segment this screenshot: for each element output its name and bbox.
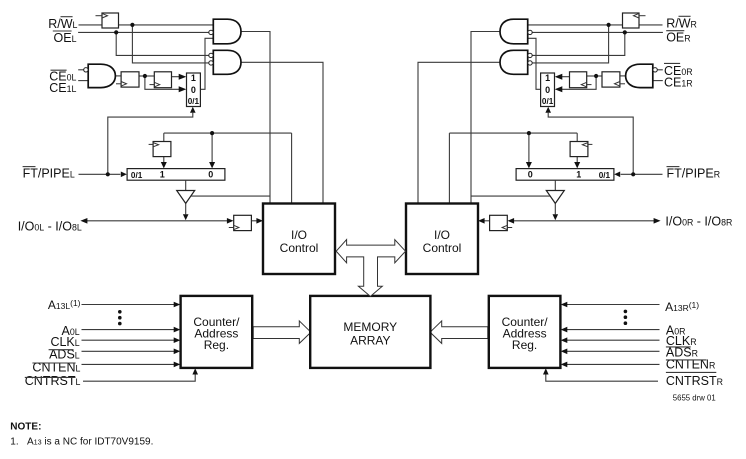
svg-text:1: 1 — [160, 170, 165, 180]
svg-text:I/O: I/O — [291, 228, 307, 242]
svg-text:0: 0 — [208, 170, 213, 180]
svg-text:I/O: I/O — [434, 228, 450, 242]
svg-text:Reg.: Reg. — [204, 338, 229, 352]
svg-text:Reg.: Reg. — [512, 338, 537, 352]
svg-text:0: 0 — [191, 85, 196, 95]
svg-text:5655 drw 01: 5655 drw 01 — [673, 394, 716, 403]
svg-text:0/1: 0/1 — [542, 97, 554, 106]
svg-text:FT/PIPEL: FT/PIPEL — [23, 167, 75, 181]
svg-text:FT/PIPER: FT/PIPER — [667, 167, 721, 181]
svg-text:0L: 0L — [67, 73, 77, 83]
svg-text:Control: Control — [280, 241, 319, 255]
svg-text:I/O0R - I/O8R: I/O0R - I/O8R — [665, 215, 732, 229]
svg-text:I/O0L - I/O8L: I/O0L - I/O8L — [18, 220, 82, 234]
svg-text:1L: 1L — [67, 84, 77, 94]
svg-text:NOTE:: NOTE: — [10, 422, 41, 433]
svg-text:1: 1 — [576, 170, 581, 180]
svg-text:CNTRSTL: CNTRSTL — [25, 374, 81, 388]
svg-text:0: 0 — [528, 170, 533, 180]
svg-text:CE1R: CE1R — [664, 75, 693, 89]
svg-text:0/1: 0/1 — [599, 171, 611, 180]
svg-text:OE: OE — [54, 31, 72, 45]
svg-text:A13L(1): A13L(1) — [48, 298, 81, 312]
svg-text:ARRAY: ARRAY — [350, 333, 390, 347]
svg-text:CE: CE — [49, 81, 66, 95]
svg-text:MEMORY: MEMORY — [343, 320, 397, 334]
svg-text:1: 1 — [545, 73, 550, 83]
svg-text:Control: Control — [423, 241, 462, 255]
svg-text:OER: OER — [666, 30, 690, 44]
svg-text:R/WR: R/WR — [666, 17, 697, 31]
svg-text:L: L — [73, 20, 78, 30]
svg-text:CNTRSTR: CNTRSTR — [666, 374, 723, 388]
svg-text:0/1: 0/1 — [188, 97, 200, 106]
svg-text:0: 0 — [545, 85, 550, 95]
svg-text:R/W: R/W — [48, 17, 73, 31]
svg-text:0/1: 0/1 — [131, 171, 143, 180]
svg-text:1. A13 is a NC for IDT70V915: 1. A13 is a NC for IDT70V9159. — [10, 436, 153, 447]
svg-text:L: L — [72, 34, 77, 44]
svg-text:A13R(1): A13R(1) — [665, 300, 699, 314]
svg-text:1: 1 — [191, 73, 196, 83]
